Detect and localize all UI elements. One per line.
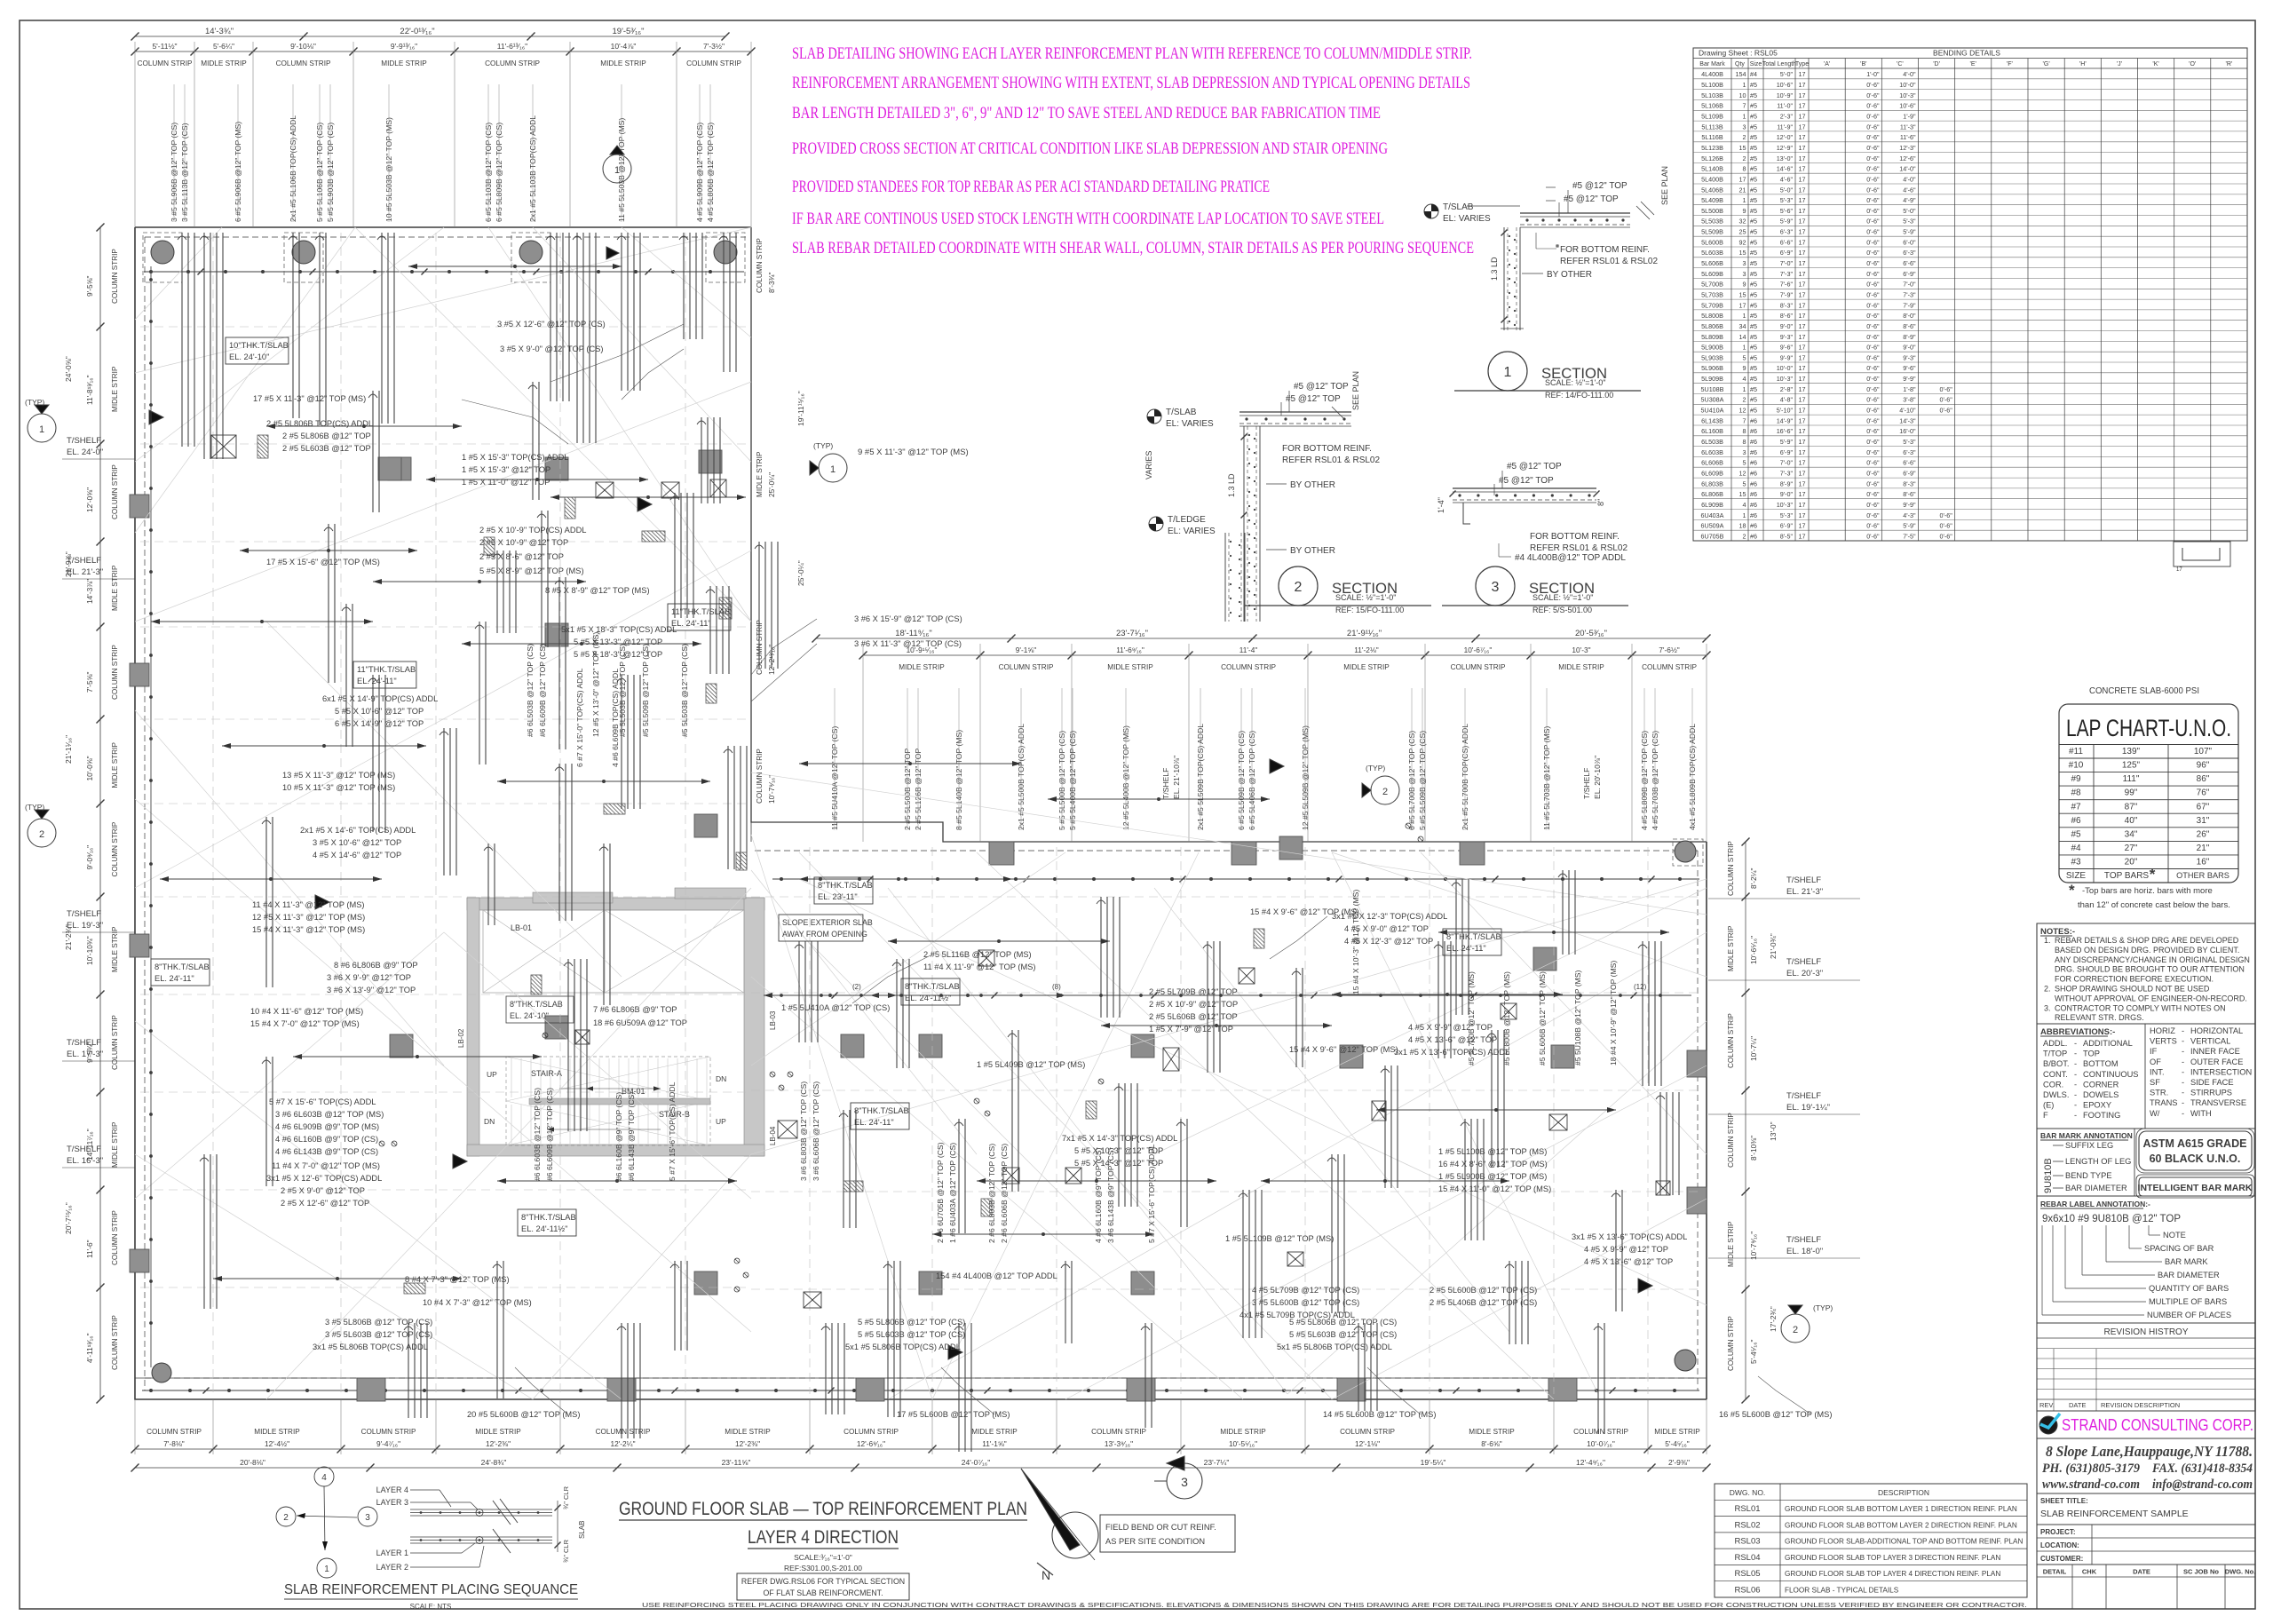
svg-text:17: 17 [1799, 333, 1806, 341]
svg-text:#5: #5 [1750, 238, 1757, 246]
svg-text:MIDLE STRIP: MIDLE STRIP [600, 59, 646, 67]
bottom dimension extension lines [134, 1399, 136, 1454]
svg-text:BAR DIAMETER: BAR DIAMETER [2065, 1184, 2127, 1192]
svg-text:6x1 #5 X 14'-9" TOP(CS) ADDL: 6x1 #5 X 14'-9" TOP(CS) ADDL [322, 694, 438, 703]
svg-text:9'-10⅛": 9'-10⅛" [290, 42, 316, 51]
svg-text:#4: #4 [2071, 844, 2081, 853]
svg-text:GROUND FLOOR SLAB-ADDITIONAL: GROUND FLOOR SLAB-ADDITIONAL TOP AND BOT… [1785, 1538, 2024, 1546]
svg-text:7'-0": 7'-0" [1780, 259, 1794, 267]
svg-text:0'-6": 0'-6" [1866, 416, 1880, 424]
svg-text:EL. 21'-3": EL. 21'-3" [1786, 887, 1823, 897]
svg-text:12'-2⅜": 12'-2⅜" [486, 1439, 511, 1448]
top edge column circles [151, 241, 174, 264]
svg-text:EL. 18'-0": EL. 18'-0" [1786, 1247, 1823, 1256]
svg-text:-: - [2182, 1089, 2184, 1097]
svg-text:20'-8⅛": 20'-8⅛" [240, 1458, 265, 1467]
svg-text:info@strand-co.com: info@strand-co.com [2152, 1477, 2253, 1492]
svg-text:MIDLE STRIP: MIDLE STRIP [381, 59, 427, 67]
svg-text:0'-6": 0'-6" [1866, 249, 1880, 257]
svg-text:5U108B: 5U108B [1701, 385, 1724, 393]
svg-text:4'-3": 4'-3" [1903, 511, 1916, 519]
svg-text:12'-2⅜": 12'-2⅜" [735, 1439, 760, 1448]
svg-text:PROVIDED STANDEES FOR TOP REBA: PROVIDED STANDEES FOR TOP REBAR AS PER A… [792, 178, 1270, 196]
svg-text:#5: #5 [1750, 165, 1757, 173]
svg-text:10'-3": 10'-3" [1899, 91, 1916, 99]
svg-text:MIDLE STRIP: MIDLE STRIP [971, 1428, 1018, 1436]
svg-text:7'-0": 7'-0" [1903, 281, 1916, 289]
svg-text:9'-9": 9'-9" [1903, 501, 1916, 509]
svg-text:8 Slope Lane,Hauppauge,NY 1178: 8 Slope Lane,Hauppauge,NY 11788. [2046, 1443, 2253, 1460]
svg-text:ADDL.: ADDL. [2043, 1039, 2067, 1048]
svg-text:21'-1¹⁄₁₆": 21'-1¹⁄₁₆" [64, 735, 73, 764]
svg-text:17: 17 [1799, 479, 1806, 487]
svg-text:92: 92 [1739, 238, 1746, 246]
svg-text:TRANS: TRANS [2150, 1098, 2178, 1107]
svg-text:17: 17 [2176, 567, 2182, 573]
svg-text:#5: #5 [1750, 113, 1757, 121]
svg-text:5 #7 X 15'-6" TOP(CS) ADDL: 5 #7 X 15'-6" TOP(CS) ADDL [668, 1081, 677, 1181]
svg-text:CUSTOMER:: CUSTOMER: [2040, 1555, 2083, 1563]
svg-text:14 #5 5L600B @12" TOP (MS): 14 #5 5L600B @12" TOP (MS) [1323, 1410, 1436, 1419]
svg-text:7'-5⅝": 7'-5⅝" [85, 672, 94, 693]
svg-text:23'-7¹⁄₁₆": 23'-7¹⁄₁₆" [1116, 629, 1148, 638]
svg-text:STRAND CONSULTING CORP.: STRAND CONSULTING CORP. [2062, 1415, 2253, 1434]
svg-text:9: 9 [1743, 364, 1746, 372]
svg-text:3 #5 5L603B @12" TOP (CS): 3 #5 5L603B @12" TOP (CS) [325, 1330, 432, 1339]
svg-text:#9: #9 [2071, 774, 2081, 784]
svg-text:#5 @12" TOP: #5 @12" TOP [1294, 382, 1349, 392]
svg-text:9U810B: 9U810B [2043, 1158, 2054, 1193]
svg-text:0'-6": 0'-6" [1866, 312, 1880, 320]
svg-text:0'-6": 0'-6" [1866, 207, 1880, 215]
svg-text:SPACING OF BAR: SPACING OF BAR [2144, 1244, 2214, 1253]
svg-text:QUANTITY OF BARS: QUANTITY OF BARS [2149, 1284, 2229, 1293]
svg-text:#6 6L609B @12" TOP (CS): #6 6L609B @12" TOP (CS) [538, 644, 547, 737]
svg-text:COLUMN STRIP: COLUMN STRIP [1727, 1013, 1735, 1068]
svg-text:'O': 'O' [2189, 61, 2196, 67]
svg-text:OF: OF [2150, 1058, 2161, 1066]
svg-text:10'-5⁵⁄₁₆": 10'-5⁵⁄₁₆" [1229, 1439, 1257, 1448]
svg-text:#5: #5 [1750, 364, 1757, 372]
svg-text:2: 2 [39, 829, 44, 840]
svg-text:3 #6 X 11'-3" @12" TOP (CS): 3 #6 X 11'-3" @12" TOP (CS) [854, 639, 962, 648]
svg-text:5L709B: 5L709B [1701, 301, 1723, 309]
svg-text:17: 17 [1799, 427, 1806, 435]
right column outer border [2036, 923, 2038, 1609]
svg-text:7'-6½": 7'-6½" [1659, 646, 1679, 654]
svg-text:LOCATION:: LOCATION: [2040, 1541, 2079, 1549]
svg-text:SHEET TITLE:: SHEET TITLE: [2040, 1497, 2088, 1505]
svg-text:(TYP): (TYP) [25, 398, 44, 407]
svg-text:AWAY FROM OPENING: AWAY FROM OPENING [782, 930, 867, 939]
svg-text:17: 17 [1799, 438, 1806, 446]
svg-text:0'-6": 0'-6" [1866, 81, 1880, 89]
svg-text:8'-0": 8'-0" [1903, 312, 1916, 320]
svg-text:EL. 24'-11": EL. 24'-11" [357, 677, 397, 685]
svg-text:3 #6 X 9'-9" @12" TOP: 3 #6 X 9'-9" @12" TOP [327, 973, 411, 982]
svg-text:3'-8": 3'-8" [1903, 396, 1916, 404]
svg-text:T/SHELF: T/SHELF [67, 556, 101, 566]
svg-text:0'-6": 0'-6" [1866, 218, 1880, 226]
svg-text:RSL03: RSL03 [1734, 1537, 1760, 1547]
svg-text:3: 3 [365, 1513, 370, 1523]
svg-text:7x1 #5 X 14'-3" TOP(CS) ADDL: 7x1 #5 X 14'-3" TOP(CS) ADDL [1062, 1134, 1177, 1143]
svg-text:0'-6": 0'-6" [1866, 175, 1880, 183]
svg-text:-: - [2074, 1090, 2077, 1099]
svg-text:UP: UP [487, 1070, 497, 1079]
section 3 detail [1453, 487, 1596, 489]
x-box symbols [211, 435, 236, 458]
svg-text:MIDLE STRIP: MIDLE STRIP [111, 1121, 119, 1168]
bottom dim sub row [135, 1448, 1707, 1450]
svg-text:1: 1 [1743, 196, 1746, 204]
svg-text:4: 4 [1743, 375, 1746, 383]
svg-text:5'-6¼": 5'-6¼" [213, 42, 234, 51]
svg-text:1'-9": 1'-9" [1903, 113, 1916, 121]
svg-text:24'-0⁷⁄₁₆": 24'-0⁷⁄₁₆" [962, 1458, 990, 1467]
svg-text:111": 111" [2123, 774, 2140, 784]
svg-text:-: - [2182, 1058, 2184, 1066]
svg-text:0'-6": 0'-6" [1866, 291, 1880, 299]
svg-text:#6: #6 [1750, 459, 1757, 467]
north arrow [1052, 1512, 1098, 1558]
svg-text:RSL01: RSL01 [1734, 1504, 1760, 1514]
bottom edge columns [357, 1378, 385, 1401]
svg-text:#5: #5 [1750, 102, 1757, 110]
svg-text:¾" CLR: ¾" CLR [562, 1539, 570, 1563]
svg-text:T/SLAB: T/SLAB [1443, 202, 1474, 212]
svg-text:96": 96" [2197, 761, 2210, 771]
svg-text:7'-3": 7'-3" [1780, 270, 1794, 278]
svg-text:INT.: INT. [2150, 1067, 2165, 1076]
svg-text:9'-5⅝": 9'-5⅝" [85, 276, 94, 297]
svg-text:17: 17 [1799, 228, 1806, 236]
bending details table [1693, 48, 2247, 541]
svg-text:27": 27" [2125, 844, 2138, 853]
svg-text:6U705B: 6U705B [1701, 532, 1724, 540]
svg-text:1.: 1. [2044, 936, 2051, 945]
sheet title block [2037, 1493, 2255, 1494]
svg-text:10'-6": 10'-6" [1777, 81, 1794, 89]
svg-text:EL. 24'-0": EL. 24'-0" [67, 448, 103, 457]
svg-text:8"THK.T/SLAB: 8"THK.T/SLAB [521, 1213, 576, 1222]
svg-text:(8): (8) [1052, 983, 1061, 991]
svg-text:1: 1 [1743, 511, 1746, 519]
svg-text:T/SHELF: T/SHELF [67, 436, 101, 446]
svg-text:3: 3 [1743, 448, 1746, 456]
svg-text:9'-9": 9'-9" [1903, 375, 1916, 383]
svg-text:11'-9": 11'-9" [1777, 123, 1793, 131]
customer row [2037, 1550, 2255, 1552]
svg-text:2'-3": 2'-3" [1780, 113, 1794, 121]
svg-text:15 #4 X 11'-0" @12" TOP (MS): 15 #4 X 11'-0" @12" TOP (MS) [1438, 1184, 1551, 1193]
svg-text:17: 17 [1799, 301, 1806, 309]
svg-text:2 #5 5L600B @12" TOP (CS): 2 #5 5L600B @12" TOP (CS) [1430, 1286, 1537, 1295]
svg-text:5L906B: 5L906B [1701, 364, 1723, 372]
svg-text:5L100B: 5L100B [1701, 81, 1723, 89]
svg-text:17: 17 [1799, 218, 1806, 226]
svg-text:2: 2 [1743, 532, 1746, 540]
svg-text:3 #5 X 10'-6" @12" TOP: 3 #5 X 10'-6" @12" TOP [313, 838, 401, 847]
svg-text:#4 4L400B@12" TOP ADDL: #4 4L400B@12" TOP ADDL [1515, 553, 1626, 563]
svg-text:14'-3¾": 14'-3¾" [205, 27, 234, 36]
svg-text:5L903B: 5L903B [1701, 353, 1723, 361]
svg-text:4'-11¹³⁄₁₆": 4'-11¹³⁄₁₆" [85, 1333, 94, 1363]
svg-text:12 #5 X 13'-0" @12" TOP (MS): 12 #5 X 13'-0" @12" TOP (MS) [591, 632, 600, 737]
svg-text:4: 4 [1743, 501, 1746, 509]
svg-text:13'-0": 13'-0" [1777, 154, 1794, 162]
svg-text:16 #5 5L600B @12" TOP (MS): 16 #5 5L600B @12" TOP (MS) [1719, 1410, 1832, 1419]
svg-text:8'-3": 8'-3" [1780, 301, 1794, 309]
svg-text:CONTINUOUS: CONTINUOUS [2083, 1070, 2139, 1079]
svg-text:1: 1 [1743, 312, 1746, 320]
svg-text:17: 17 [1799, 144, 1806, 152]
svg-text:SEE PLAN: SEE PLAN [1351, 371, 1360, 410]
svg-text:5'-3": 5'-3" [1780, 511, 1794, 519]
detail chk date row [2037, 1564, 2255, 1565]
svg-text:5L140B: 5L140B [1701, 165, 1723, 173]
svg-text:1.3 LD: 1.3 LD [1490, 257, 1499, 281]
svg-text:10'-7⁹⁄₁₆": 10'-7⁹⁄₁₆" [1749, 1232, 1758, 1260]
svg-text:6'-9": 6'-9" [1903, 470, 1916, 478]
svg-text:-: - [2182, 1047, 2184, 1056]
svg-text:ABBREVIATIONS:-: ABBREVIATIONS:- [2040, 1027, 2115, 1037]
svg-text:17 #5 X 11'-3" @12" TOP (MS): 17 #5 X 11'-3" @12" TOP (MS) [253, 394, 366, 403]
project row [2037, 1524, 2255, 1525]
svg-text:23'-11⅝": 23'-11⅝" [722, 1458, 751, 1467]
svg-text:T/SHELF: T/SHELF [1161, 768, 1170, 799]
svg-text:#6: #6 [1750, 490, 1757, 498]
svg-text:17: 17 [1799, 249, 1806, 257]
svg-text:LB-04: LB-04 [769, 1126, 777, 1145]
leader polylines [462, 324, 1811, 1414]
svg-text:REFER RSL01 & RSL02: REFER RSL01 & RSL02 [1560, 257, 1658, 266]
svg-text:17: 17 [1739, 175, 1746, 183]
svg-text:6L143B: 6L143B [1701, 416, 1723, 424]
svg-text:5L806B: 5L806B [1701, 322, 1723, 330]
svg-text:1: 1 [39, 424, 44, 435]
svg-text:10: 10 [1739, 91, 1746, 99]
svg-text:DATE: DATE [2133, 1568, 2150, 1576]
svg-text:16": 16" [2197, 858, 2210, 867]
svg-text:0'-6": 0'-6" [1866, 333, 1880, 341]
svg-text:1: 1 [1743, 344, 1746, 352]
top dimension extension lines [134, 42, 136, 227]
svg-text:COR.: COR. [2043, 1080, 2063, 1089]
svg-text:2 #6 6U705B @12" TOP (CS): 2 #6 6U705B @12" TOP (CS) [936, 1142, 945, 1243]
svg-text:REFER DWG.RSL06 FOR TYPICAL: REFER DWG.RSL06 FOR TYPICAL SECTION [741, 1577, 905, 1586]
svg-text:1 #5 X 11'-0" @12" TOP: 1 #5 X 11'-0" @12" TOP [462, 478, 550, 487]
svg-text:COLUMN STRIP: COLUMN STRIP [1091, 1428, 1146, 1436]
svg-text:MIDLE STRIP: MIDLE STRIP [111, 926, 119, 972]
svg-text:0'-6": 0'-6" [1866, 364, 1880, 372]
svg-text:LENGTH OF LEG: LENGTH OF LEG [2065, 1157, 2131, 1166]
svg-text:17: 17 [1799, 511, 1806, 519]
svg-text:1 #5 5L900B @12" TOP (MS): 1 #5 5L900B @12" TOP (MS) [1438, 1172, 1547, 1181]
svg-text:CONTRACTOR TO COMPLY WITH NOTE: CONTRACTOR TO COMPLY WITH NOTES ON [2055, 1003, 2226, 1012]
svg-text:24'-8¾": 24'-8¾" [481, 1458, 507, 1467]
svg-text:6 #7 X 15'-0" TOP(CS) ADDL: 6 #7 X 15'-0" TOP(CS) ADDL [575, 668, 584, 767]
svg-text:SLOPE EXTERIOR SLAB: SLOPE EXTERIOR SLAB [782, 918, 873, 927]
svg-text:EL: VARIES: EL: VARIES [1443, 214, 1491, 224]
svg-text:MIDLE STRIP: MIDLE STRIP [1220, 1428, 1266, 1436]
svg-text:DWG. NO.: DWG. NO. [1730, 1488, 1766, 1497]
svg-text:8'-9": 8'-9" [1780, 479, 1794, 487]
svg-text:18: 18 [1739, 522, 1746, 530]
svg-text:18 #4 X 10'-9" @12" TOP (MS): 18 #4 X 10'-9" @12" TOP (MS) [1609, 961, 1618, 1066]
svg-text:25'-0¼": 25'-0¼" [796, 560, 805, 586]
svg-text:3x1 #5 5L806B TOP(CS) ADDL: 3x1 #5 5L806B TOP(CS) ADDL [313, 1343, 428, 1351]
svg-text:BAR DIAMETER: BAR DIAMETER [2158, 1271, 2220, 1279]
svg-text:STIRRUPS: STIRRUPS [2190, 1089, 2232, 1097]
svg-text:REBAR LABEL ANNOTATION:-: REBAR LABEL ANNOTATION:- [2040, 1200, 2150, 1208]
svg-text:24'-0⅝": 24'-0⅝" [64, 356, 73, 382]
svg-text:17: 17 [1799, 91, 1806, 99]
svg-text:'D': 'D' [1933, 61, 1940, 67]
svg-text:4'-9": 4'-9" [1903, 196, 1916, 204]
svg-text:8: 8 [1743, 438, 1746, 446]
section 2 marker [1279, 566, 1318, 606]
svg-text:6L803B: 6L803B [1701, 479, 1723, 487]
svg-text:17: 17 [1799, 165, 1806, 173]
svg-text:5 #5 5L806B @12" TOP (CS): 5 #5 5L806B @12" TOP (CS) [858, 1318, 965, 1327]
svg-text:#5: #5 [1750, 228, 1757, 236]
body top edge rebar chain [772, 878, 1699, 880]
svg-text:5x1 #5 5L806B TOP(CS) ADDL: 5x1 #5 5L806B TOP(CS) ADDL [845, 1343, 961, 1351]
svg-text:10 #4 X 11'-6" @12" TOP (MS): 10 #4 X 11'-6" @12" TOP (MS) [250, 1007, 363, 1016]
svg-text:5 #7 X 15'-6" TOP(CS) ADDL: 5 #7 X 15'-6" TOP(CS) ADDL [1147, 1144, 1156, 1243]
svg-text:REF:S301.00,S-201.00: REF:S301.00,S-201.00 [784, 1564, 862, 1573]
svg-text:EL. 24'-10": EL. 24'-10" [229, 353, 269, 361]
svg-text:COLUMN STRIP: COLUMN STRIP [1451, 663, 1506, 671]
svg-text:3 #5 X 9'-0" @12" TOP (CS): 3 #5 X 9'-0" @12" TOP (CS) [500, 345, 604, 353]
dwg no description table [1715, 1484, 2027, 1597]
svg-text:LAYER 2: LAYER 2 [376, 1563, 408, 1572]
svg-text:1: 1 [1743, 113, 1746, 121]
svg-text:12'-0⅝": 12'-0⅝" [85, 487, 94, 512]
svg-text:9'-4⁷⁄₁₆": 9'-4⁷⁄₁₆" [376, 1439, 400, 1448]
right dimension block [1745, 842, 1746, 1399]
svg-text:RELEVANT STR. DRGS.: RELEVANT STR. DRGS. [2055, 1013, 2144, 1022]
svg-text:#5: #5 [1750, 344, 1757, 352]
svg-text:5L600B: 5L600B [1701, 238, 1723, 246]
svg-text:#5 5L700B @12" TOP (MS): #5 5L700B @12" TOP (MS) [1467, 971, 1476, 1066]
svg-text:REF: 15/FO-111.00: REF: 15/FO-111.00 [1335, 606, 1404, 614]
stair middle band labels [506, 996, 574, 1023]
svg-text:MIDLE STRIP: MIDLE STRIP [1727, 925, 1735, 971]
svg-text:0'-6": 0'-6" [1866, 228, 1880, 236]
svg-text:6'-9": 6'-9" [1780, 448, 1794, 456]
svg-text:11"THK.T/SLAB: 11"THK.T/SLAB [357, 665, 416, 674]
svg-text:2 #5 X 8'-6" @12" TOP: 2 #5 X 8'-6" @12" TOP [479, 552, 564, 561]
svg-text:LAP CHART-U.N.O.: LAP CHART-U.N.O. [2066, 715, 2231, 741]
svg-text:6U403A: 6U403A [1701, 511, 1724, 519]
svg-text:2 #5 5L406B @12" TOP (CS): 2 #5 5L406B @12" TOP (CS) [1430, 1298, 1537, 1307]
svg-text:15: 15 [1739, 144, 1746, 152]
svg-text:REFER RSL01 & RSL02: REFER RSL01 & RSL02 [1530, 543, 1628, 553]
svg-text:T/LEDGE: T/LEDGE [1168, 515, 1206, 525]
svg-text:0'-6": 0'-6" [1866, 196, 1880, 204]
svg-text:17: 17 [1799, 532, 1806, 540]
svg-text:20": 20" [2125, 858, 2138, 867]
svg-text:8'-6": 8'-6" [1780, 312, 1794, 320]
svg-text:Bar Mark: Bar Mark [1699, 61, 1725, 67]
svg-text:www.strand-co.com: www.strand-co.com [2042, 1477, 2140, 1492]
svg-text:RSL05: RSL05 [1734, 1569, 1760, 1579]
svg-text:13'-0": 13'-0" [1769, 1121, 1778, 1141]
svg-text:#6 6L160B @9" TOP (CS): #6 6L160B @9" TOP (CS) [614, 1092, 623, 1181]
svg-text:7'-3": 7'-3" [1780, 470, 1794, 478]
svg-text:T/SHELF: T/SHELF [67, 1145, 101, 1154]
svg-text:BENDING DETAILS: BENDING DETAILS [1933, 49, 2000, 58]
svg-text:FAX. (631)418-8354: FAX. (631)418-8354 [2151, 1462, 2253, 1476]
thk slab boxed labels [226, 337, 289, 364]
svg-text:OUTER FACE: OUTER FACE [2190, 1058, 2243, 1066]
svg-text:2'-8": 2'-8" [1780, 385, 1794, 393]
svg-text:RSL02: RSL02 [1734, 1520, 1760, 1530]
svg-text:LAYER 3: LAYER 3 [376, 1498, 408, 1507]
svg-text:4 #5 X 9'-9" @12" TOP: 4 #5 X 9'-9" @12" TOP [1584, 1245, 1668, 1254]
svg-text:INNER FACE: INNER FACE [2190, 1047, 2240, 1056]
svg-text:6L806B: 6L806B [1701, 490, 1723, 498]
svg-text:0'-6": 0'-6" [1866, 501, 1880, 509]
svg-text:21": 21" [2197, 844, 2210, 853]
svg-text:INTERSECTION: INTERSECTION [2190, 1067, 2252, 1076]
svg-text:17: 17 [1799, 186, 1806, 194]
svg-text:2 #6 6L803B @12" TOP (CS): 2 #6 6L803B @12" TOP (CS) [987, 1144, 996, 1243]
svg-text:2: 2 [1743, 133, 1746, 141]
svg-text:12'-9": 12'-9" [1777, 144, 1794, 152]
svg-text:IF BAR ARE CONTINOUS USED STOC: IF BAR ARE CONTINOUS USED STOCK LENGTH W… [792, 210, 1384, 228]
svg-text:FLOOR SLAB - TYPICAL DETAI: FLOOR SLAB - TYPICAL DETAILS [1785, 1587, 1899, 1595]
svg-text:31": 31" [2197, 816, 2210, 826]
field bend box [1100, 1515, 1235, 1552]
svg-text:#6: #6 [1750, 501, 1757, 509]
svg-text:MIDLE STRIP: MIDLE STRIP [1558, 663, 1604, 671]
svg-text:REVISION DESCRIPTION: REVISION DESCRIPTION [2101, 1401, 2180, 1409]
ASTM grade box [2139, 1131, 2252, 1170]
svg-text:COLUMN STRIP: COLUMN STRIP [843, 1428, 899, 1436]
section marker 3 bottom [1167, 1463, 1202, 1499]
svg-text:20'-5³⁄₁₆": 20'-5³⁄₁₆" [1575, 629, 1607, 638]
svg-text:17: 17 [1799, 501, 1806, 509]
svg-text:5L503B: 5L503B [1701, 218, 1723, 226]
svg-text:EL. 21'-3": EL. 21'-3" [67, 567, 103, 577]
svg-text:#5: #5 [1750, 407, 1757, 415]
svg-text:8'-2¼": 8'-2¼" [1749, 868, 1758, 889]
svg-text:UP: UP [716, 1117, 726, 1126]
svg-text:0'-6": 0'-6" [1866, 113, 1880, 121]
svg-text:5L500B: 5L500B [1701, 207, 1723, 215]
svg-text:SF: SF [2150, 1078, 2160, 1087]
svg-text:2: 2 [1743, 396, 1746, 404]
svg-text:#5: #5 [1750, 281, 1757, 289]
svg-text:DOWELS: DOWELS [2083, 1090, 2119, 1099]
svg-text:BAR MARK: BAR MARK [2165, 1257, 2208, 1266]
svg-text:OF FLAT SLAB REINFORCMENT.: OF FLAT SLAB REINFORCMENT. [763, 1588, 883, 1597]
svg-text:FOR CORRECTION BEFORE EXECUTIO: FOR CORRECTION BEFORE EXECUTION. [2055, 975, 2214, 984]
svg-text:INTELLIGENT BAR MARK: INTELLIGENT BAR MARK [2138, 1183, 2253, 1193]
svg-text:10'-0": 10'-0" [1777, 364, 1794, 372]
svg-text:0'-6": 0'-6" [1866, 353, 1880, 361]
svg-text:5L400B: 5L400B [1701, 175, 1723, 183]
notes box [2037, 923, 2255, 1024]
svg-text:MIDLE STRIP: MIDLE STRIP [111, 565, 119, 611]
svg-text:10 #4 X 7'-3" @12" TOP (MS): 10 #4 X 7'-3" @12" TOP (MS) [423, 1298, 532, 1307]
svg-text:#5: #5 [1750, 123, 1757, 131]
refer dwg box [737, 1573, 909, 1600]
svg-text:F: F [2043, 1111, 2048, 1120]
